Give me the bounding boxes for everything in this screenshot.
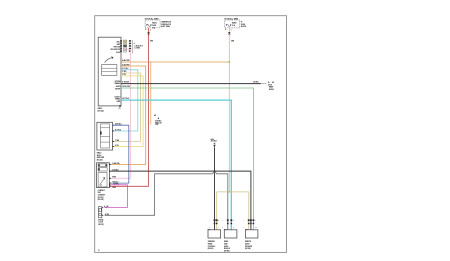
svg-text:REMOTE: REMOTE (245, 241, 251, 243)
fuse block label (right of F2) (241, 21, 247, 28)
bottom pin markers speaker C wires (243, 219, 257, 229)
fuse F1 (underhood fuse block, hot at all times) (145, 17, 160, 29)
svg-text:(LEFT SIDE): (LEFT SIDE) (161, 26, 170, 28)
wire light blue (113, 68, 138, 131)
svg-text:FUSE BLOCK: FUSE BLOCK (161, 24, 172, 26)
svg-text:(W/ UK3): (W/ UK3) (208, 248, 214, 250)
component box C label (245, 241, 252, 250)
wire tan (113, 70, 141, 141)
svg-text:A: A (222, 219, 223, 222)
svg-text:S238 BLK: S238 BLK (155, 121, 161, 123)
svg-text:E: E (145, 29, 146, 31)
tan wire bus from F2 (217, 191, 249, 230)
radio U1 (main left box) (98, 37, 121, 106)
off page reference B+ (268, 81, 274, 91)
svg-text:RADIO: RADIO (97, 152, 103, 155)
wire orange A 440 ORN to fuse junction (121, 59, 230, 63)
svg-text:B: B (233, 220, 234, 222)
CD changer U3 (third left box) (97, 163, 110, 188)
svg-text:RADIO: RADIO (152, 22, 158, 25)
component box C (remote playback device) (245, 228, 258, 238)
svg-text:BLOCK: BLOCK (241, 26, 247, 28)
svg-text:(W/ U35): (W/ U35) (98, 224, 104, 226)
clock module U4 name label (98, 218, 104, 226)
radio U1 name label (98, 107, 105, 112)
splice label S238 (154, 114, 162, 126)
svg-text:STEERING: STEERING (208, 241, 215, 243)
svg-text:REAR: REAR (224, 240, 228, 243)
svg-text:C TAN: C TAN (115, 139, 119, 142)
svg-text:A: A (243, 219, 244, 222)
svg-text:4: 4 (134, 42, 135, 45)
page frame (95, 16, 287, 253)
svg-text:C2: C2 (119, 108, 121, 110)
amplifier U2 name label (97, 152, 105, 162)
svg-text:CLASS 2: CLASS 2 (114, 95, 120, 98)
wire dark green (121, 86, 254, 230)
svg-text:CLOCK: CLOCK (98, 222, 103, 224)
svg-text:1 = BLACK C1: 1 = BLACK C1 (134, 44, 144, 47)
svg-text:B 1250: B 1250 (105, 214, 109, 216)
svg-text:CONTROLS: CONTROLS (208, 246, 216, 248)
svg-text:B: B (218, 220, 219, 222)
svg-text:RDO DISP DIM: RDO DISP DIM (111, 49, 121, 51)
svg-text:199: 199 (106, 206, 108, 208)
svg-text:12: 12 (98, 250, 100, 252)
wire orange to CD changer (110, 63, 146, 164)
component box A label (208, 241, 216, 250)
svg-text:8: 8 (233, 227, 234, 229)
svg-text:1: 1 (231, 30, 232, 32)
svg-text:HOT AT ALL TIMES: HOT AT ALL TIMES (225, 17, 239, 20)
svg-text:IGN 3: IGN 3 (117, 42, 121, 44)
svg-text:DISC: DISC (98, 192, 101, 194)
svg-text:(W/ U1R): (W/ U1R) (98, 199, 104, 201)
svg-text:A4: A4 (272, 81, 274, 84)
radio bottom connector C2 (119, 105, 121, 110)
svg-text:SYSTEM: SYSTEM (115, 81, 122, 83)
svg-text:AUDIO: AUDIO (116, 85, 121, 88)
radio top connector pins C1 (120, 40, 143, 53)
svg-text:S204: S204 (211, 138, 214, 141)
svg-text:B+: B+ (268, 82, 270, 84)
svg-text:(W/ UQ7): (W/ UQ7) (97, 159, 103, 161)
svg-text:PWR GND: PWR GND (114, 47, 121, 49)
svg-text:(W/ UQ3): (W/ UQ3) (98, 111, 105, 113)
svg-text:9 PNK: 9 PNK (112, 177, 116, 179)
svg-text:UNDERHOOD: UNDERHOOD (161, 21, 172, 23)
amplifier U2 (second left box) (97, 122, 113, 150)
clock module U4 (bottom left small box) (98, 205, 109, 218)
wire light blue serial data (121, 98, 231, 230)
component box A (steering wheel controls) (208, 228, 221, 238)
svg-text:2: 2 (150, 30, 151, 32)
svg-text:RECEIVER: RECEIVER (245, 246, 252, 248)
svg-text:HOT AT ALL TIMES: HOT AT ALL TIMES (145, 17, 159, 20)
black ground bus S204 (110, 138, 251, 230)
svg-text:1: 1 (218, 227, 219, 229)
svg-text:D: D (225, 29, 226, 31)
svg-text:12 440 ORN: 12 440 ORN (112, 162, 119, 165)
CD changer U3 name label (98, 189, 105, 201)
fuse F2 (radio amp fuse, hot at all times) (225, 17, 240, 28)
svg-text:1: 1 (243, 227, 244, 229)
svg-text:WHEEL: WHEEL (208, 244, 213, 246)
svg-text:RED: RED (150, 40, 153, 42)
svg-text:RADIO: RADIO (232, 22, 238, 25)
svg-text:A: A (104, 205, 105, 208)
svg-text:B LT BLU: B LT BLU (115, 129, 121, 131)
svg-text:ORN: ORN (231, 40, 234, 42)
svg-text:A: A (209, 219, 210, 222)
component box B (rear seat audio) (224, 227, 237, 238)
svg-text:D YEL: D YEL (115, 145, 119, 147)
svg-text:MODULE: MODULE (224, 248, 230, 250)
wire orange stub 340 ORN (150, 62, 152, 125)
wire dark blue (110, 125, 129, 183)
svg-text:1850 BLK: 1850 BLK (211, 141, 217, 143)
svg-text:U2100: U2100 (268, 84, 272, 86)
wire pink (radio dimming) (110, 50, 130, 179)
svg-text:2: 2 (222, 227, 223, 229)
svg-text:2 RED: 2 RED (112, 187, 116, 189)
gray ground wire from clock module (box4) to center speaker (105, 172, 228, 230)
svg-text:(W/ US8): (W/ US8) (245, 248, 251, 250)
svg-text:5: 5 (209, 227, 210, 229)
svg-text:A11: A11 (154, 114, 157, 117)
wire magenta (PPL) to ground module (105, 185, 128, 209)
svg-text:7 DK BLU: 7 DK BLU (112, 182, 118, 184)
wire yellow (113, 74, 143, 146)
bottom pin markers speaker A wires (209, 219, 219, 229)
svg-text:FUSE: FUSE (152, 25, 156, 27)
svg-text:(W/ UP0): (W/ UP0) (98, 197, 104, 199)
svg-text:IP: IP (241, 21, 242, 23)
svg-text:RADIO: RADIO (98, 107, 104, 110)
svg-text:(W/ UK6): (W/ UK6) (224, 250, 230, 252)
wire red into CD changer (110, 185, 149, 187)
svg-text:DIGITAL: DIGITAL (98, 218, 104, 221)
svg-text:28: 28 (255, 227, 257, 229)
wire red from F1 (147, 28, 153, 186)
fuse block label (right of F1) (161, 21, 172, 28)
bottom pin markers speaker B wires (222, 219, 234, 229)
svg-text:FUSE: FUSE (241, 24, 245, 26)
svg-text:ON/OFF: ON/OFF (115, 88, 120, 90)
wire orange from F2 down (228, 28, 234, 192)
svg-text:28 W: 28 W (155, 124, 159, 126)
svg-text:C: C (255, 220, 256, 222)
amplifier U2 pins (113, 123, 122, 148)
component box B label (224, 240, 230, 252)
svg-text:COMPACT: COMPACT (98, 189, 105, 192)
svg-text:ILLUM: ILLUM (116, 52, 121, 54)
wire black system enable (B+ off page) (121, 82, 266, 84)
CD changer U3 pins (109, 162, 119, 189)
